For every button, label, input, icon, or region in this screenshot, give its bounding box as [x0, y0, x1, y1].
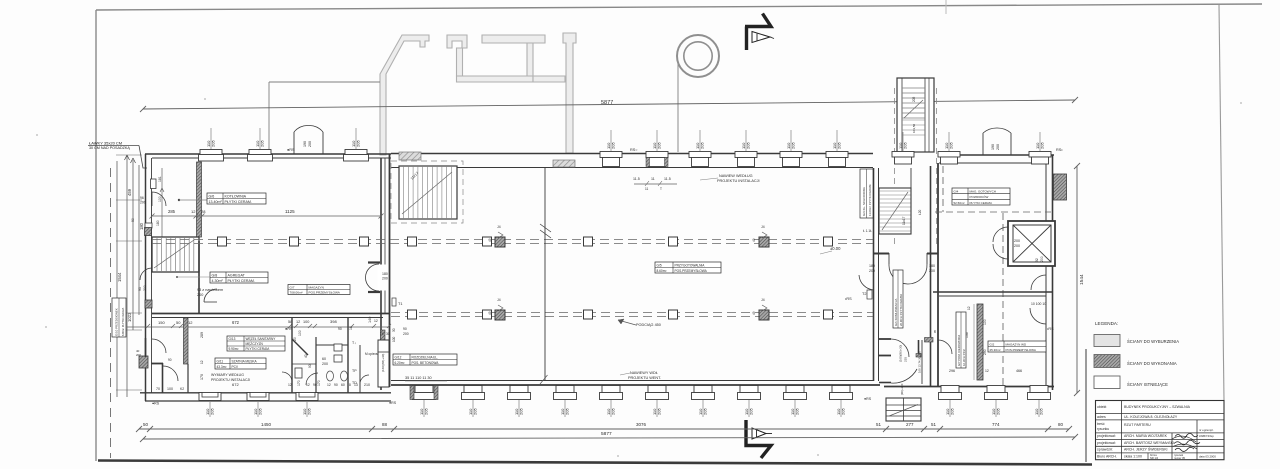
svg-text:11: 11 — [651, 177, 655, 181]
svg-text:180: 180 — [929, 264, 935, 268]
svg-text:205: 205 — [657, 142, 662, 149]
svg-text:74: 74 — [380, 332, 384, 336]
svg-text:LWB/74/Gp: LWB/74/Gp — [1199, 434, 1214, 438]
svg-text:96: 96 — [140, 196, 144, 200]
svg-text:(160)(86)+30): (160)(86)+30) — [381, 354, 385, 372]
svg-text:35 11 110 11 30: 35 11 110 11 30 — [405, 376, 432, 380]
svg-text:100: 100 — [167, 387, 173, 391]
svg-text:140: 140 — [368, 317, 372, 323]
svg-text:8: 8 — [349, 383, 351, 387]
svg-text:PŁYTKI CERAM.: PŁYTKI CERAM. — [246, 347, 270, 351]
svg-text:J4: J4 — [497, 225, 501, 229]
svg-text:●RS: ●RS — [287, 148, 295, 152]
svg-text:●RS: ●RS — [152, 402, 160, 406]
svg-text:88: 88 — [382, 422, 388, 427]
svg-text:205: 205 — [903, 142, 908, 149]
svg-text:•RS: •RS — [1047, 327, 1054, 331]
svg-text:26.90m² PŁYTKI CERAM.: 26.90m² PŁYTKI CERAM. — [899, 293, 903, 326]
svg-text:G/8: G/8 — [212, 273, 218, 277]
svg-text:49: 49 — [488, 238, 492, 242]
svg-text:90: 90 — [308, 364, 312, 368]
svg-text:200: 200 — [143, 285, 147, 291]
svg-text:398: 398 — [330, 319, 337, 324]
svg-text:projektował:: projektował: — [1097, 434, 1116, 438]
svg-text:9.90m²: 9.90m² — [229, 347, 239, 351]
svg-text:PROJEKTU INSTALACJI: PROJEKTU INSTALACJI — [717, 179, 760, 183]
svg-text:J4: J4 — [761, 298, 765, 302]
svg-text:1544: 1544 — [117, 272, 122, 282]
svg-text:150: 150 — [158, 320, 165, 325]
svg-text:KOTŁOWNIA: KOTŁOWNIA — [225, 194, 247, 198]
svg-text:T2: T2 — [862, 292, 866, 296]
svg-text:90: 90 — [334, 383, 338, 387]
svg-text:ŁAWKY 35x20 CM: ŁAWKY 35x20 CM — [89, 141, 122, 146]
svg-text:ŚCIANY DO WYBURZENIA: ŚCIANY DO WYBURZENIA — [1127, 339, 1179, 344]
svg-text:459: 459 — [127, 188, 132, 196]
svg-text:K2: K2 — [180, 387, 184, 391]
svg-text:200: 200 — [403, 332, 409, 336]
svg-text:80: 80 — [1058, 422, 1064, 427]
svg-text:205: 205 — [356, 140, 361, 147]
svg-text:28: 28 — [201, 209, 206, 214]
svg-text:170: 170 — [297, 380, 301, 386]
svg-text:MAGAZYN WD: MAGAZYN WD — [1006, 342, 1027, 346]
svg-text:11: 11 — [645, 187, 649, 191]
svg-text:30: 30 — [386, 332, 390, 336]
svg-text:180: 180 — [156, 220, 160, 226]
svg-text:5877: 5877 — [601, 431, 612, 437]
svg-text:PROJEKTU WENT.: PROJEKTU WENT. — [628, 376, 661, 380]
svg-text:MAGAZYN: MAGAZYN — [309, 285, 324, 289]
svg-text:RS•: RS• — [1056, 148, 1063, 152]
svg-text:103,50: 103,50 — [912, 123, 916, 133]
svg-text:G/7: G/7 — [290, 285, 295, 289]
svg-text:205: 205 — [1040, 142, 1045, 149]
svg-text:49: 49 — [752, 238, 756, 242]
svg-text:100: 100 — [303, 320, 309, 324]
svg-text:205: 205 — [746, 142, 751, 149]
svg-text:POS.PRZEMYSŁOWA: POS.PRZEMYSŁOWA — [1006, 348, 1036, 352]
svg-text:numer 05: numer 05 — [1174, 456, 1186, 460]
svg-text:rysunku: rysunku — [1097, 427, 1109, 431]
svg-text:205: 205 — [210, 408, 215, 415]
svg-text:170: 170 — [317, 380, 321, 386]
svg-text:12: 12 — [349, 326, 353, 330]
svg-text:92: 92 — [1035, 258, 1039, 262]
svg-text:sprawdził:: sprawdził: — [1097, 448, 1113, 452]
svg-text:T: T — [660, 187, 662, 191]
svg-text:12: 12 — [967, 306, 971, 310]
svg-text:205: 205 — [307, 408, 312, 415]
svg-text:G/5: G/5 — [657, 263, 662, 267]
svg-text:672: 672 — [232, 320, 240, 325]
svg-text:205: 205 — [791, 142, 796, 149]
svg-text:3076: 3076 — [636, 422, 647, 427]
svg-text:WĘZEŁ SANITARNY: WĘZEŁ SANITARNY — [246, 337, 277, 341]
svg-text:12: 12 — [191, 209, 196, 214]
svg-text:4.30m²: 4.30m² — [212, 279, 224, 283]
svg-text:181: 181 — [158, 176, 162, 182]
svg-text:12: 12 — [985, 369, 989, 373]
svg-text:708.06m²: 708.06m² — [290, 290, 303, 294]
svg-text:NAWIEW WEDŁUG: NAWIEW WEDŁUG — [719, 174, 753, 178]
svg-text:AGREGAT: AGREGAT — [228, 273, 246, 277]
svg-text:ŚCIANY ISTNIEJĄCE: ŚCIANY ISTNIEJĄCE — [1127, 382, 1168, 387]
svg-text:200: 200 — [308, 141, 312, 147]
svg-text:205: 205 — [700, 142, 705, 149]
svg-text:12: 12 — [288, 383, 292, 387]
svg-text:projektował:: projektował: — [1097, 441, 1116, 445]
svg-text:50: 50 — [143, 422, 149, 427]
svg-text:200: 200 — [197, 293, 203, 297]
svg-text:11.5: 11.5 — [664, 177, 671, 181]
svg-text:PŁYTKI CERAM.: PŁYTKI CERAM. — [228, 279, 255, 283]
svg-text:20: 20 — [293, 337, 297, 341]
svg-text:205: 205 — [837, 142, 842, 149]
svg-text:289: 289 — [200, 332, 204, 338]
svg-text:POWROKÓW: POWROKÓW — [970, 194, 989, 199]
svg-text:nr egzempl.: nr egzempl. — [1199, 428, 1214, 432]
svg-text:POS. BETONOWA: POS. BETONOWA — [412, 361, 440, 365]
svg-text:J4: J4 — [497, 298, 501, 302]
svg-text:1450: 1450 — [261, 422, 272, 427]
svg-text:205: 205 — [424, 408, 429, 415]
svg-text:TP: TP — [352, 369, 357, 373]
svg-text:16.30m² PCV: 16.30m² PCV — [962, 349, 966, 366]
svg-text:11.5: 11.5 — [633, 177, 640, 181]
svg-text:ŚCIANY DO WYKONANIA: ŚCIANY DO WYKONANIA — [1127, 361, 1177, 366]
svg-text:205: 205 — [611, 408, 616, 415]
svg-text:200: 200 — [1014, 239, 1020, 243]
svg-text:160 13 74 30 100: 160 13 74 30 100 — [918, 351, 922, 373]
svg-text:205: 205 — [949, 142, 954, 149]
svg-text:205: 205 — [1039, 408, 1044, 415]
svg-text:RZUT PARTERU: RZUT PARTERU — [1124, 423, 1151, 427]
svg-text:G/2: G/2 — [990, 342, 995, 346]
svg-text:296: 296 — [949, 369, 955, 373]
svg-text:60: 60 — [341, 383, 345, 387]
svg-text:90: 90 — [168, 358, 172, 362]
svg-text:205: 205 — [749, 408, 754, 415]
svg-text:•RS: •RS — [845, 297, 852, 301]
svg-text:ARCH. MARIA WOJTAREK: ARCH. MARIA WOJTAREK — [1124, 434, 1168, 438]
svg-text:43.3m²: 43.3m² — [217, 365, 227, 369]
svg-text:180: 180 — [869, 264, 875, 268]
svg-text:PODCIĄG 450: PODCIĄG 450 — [636, 323, 661, 327]
svg-text:PŁYTKI CERAM.: PŁYTKI CERAM. — [970, 201, 993, 205]
svg-text:11.09m² PŁYTKI CERAM.: 11.09m² PŁYTKI CERAM. — [868, 184, 872, 216]
svg-text:treść: treść — [1097, 422, 1105, 426]
svg-text:205: 205 — [996, 408, 1001, 415]
svg-text:51: 51 — [876, 422, 882, 427]
svg-text:12: 12 — [188, 320, 193, 325]
svg-text:G/11: G/11 — [217, 359, 224, 363]
svg-text:ARCH. JERZY ŚWIDERSKI: ARCH. JERZY ŚWIDERSKI — [1124, 447, 1168, 452]
svg-text:100: 100 — [298, 330, 302, 336]
svg-text:205: 205 — [795, 408, 800, 415]
svg-text:13.40m²: 13.40m² — [209, 200, 223, 204]
svg-text:POS.PRZEMYSŁOWA: POS.PRZEMYSŁOWA — [675, 269, 708, 273]
svg-text:ARCH. BARTOSZ WEYMAńSKI: ARCH. BARTOSZ WEYMAńSKI — [1124, 441, 1174, 445]
svg-text:90: 90 — [131, 218, 135, 222]
svg-text:PROJEKTU INSTALACJI: PROJEKTU INSTALACJI — [211, 378, 250, 382]
svg-text:MAG. GOTOWYCH: MAG. GOTOWYCH — [970, 189, 996, 193]
svg-text:180: 180 — [139, 222, 144, 230]
svg-text:49: 49 — [752, 311, 756, 315]
svg-text:30 CM NAD POSADZKĄ: 30 CM NAD POSADZKĄ — [89, 146, 130, 150]
svg-text:J4: J4 — [761, 225, 765, 229]
svg-text:93: 93 — [138, 287, 142, 291]
svg-text:12: 12 — [296, 320, 300, 324]
svg-text:205: 205 — [211, 140, 216, 147]
svg-text:8.60m²: 8.60m² — [657, 269, 667, 273]
svg-text:52.50m²: 52.50m² — [954, 201, 965, 205]
svg-text:205: 205 — [703, 408, 708, 415]
svg-text:skala 1:100: skala 1:100 — [1124, 455, 1142, 459]
svg-text:Biuro ARCH.: Biuro ARCH. — [1097, 455, 1117, 459]
svg-text:SZATNIA MĘSKA: SZATNIA MĘSKA — [232, 359, 258, 363]
svg-text:200: 200 — [136, 353, 141, 357]
svg-text:POS.PRZEMYSŁOWA: POS.PRZEMYSŁOWA — [309, 290, 341, 294]
svg-text:G/6: G/6 — [209, 194, 215, 198]
svg-text:Ł20: Ł20 — [918, 209, 922, 215]
svg-text:95: 95 — [933, 329, 937, 333]
svg-text:G/12: G/12 — [395, 355, 402, 359]
svg-text:672: 672 — [232, 382, 239, 387]
svg-text:12: 12 — [327, 383, 331, 387]
svg-text:T1: T1 — [398, 302, 402, 306]
svg-text:466: 466 — [1016, 369, 1022, 373]
svg-text:WYMIARY WEDŁUG: WYMIARY WEDŁUG — [211, 373, 244, 377]
svg-text:6.20m²: 6.20m² — [395, 361, 405, 365]
svg-text:90: 90 — [403, 327, 407, 331]
svg-text:1544: 1544 — [1079, 274, 1085, 285]
svg-text:774: 774 — [992, 422, 1000, 427]
svg-text:200: 200 — [996, 144, 1000, 150]
svg-text:RS○: RS○ — [630, 148, 638, 152]
svg-text:205: 205 — [519, 408, 524, 415]
svg-text:200: 200 — [1014, 244, 1020, 248]
svg-text:PRZYGOTOWALNIA: PRZYGOTOWALNIA — [675, 263, 706, 267]
svg-text:40: 40 — [304, 354, 308, 358]
svg-text:1125: 1125 — [285, 209, 295, 214]
svg-text:(160)(86)+30): (160)(86)+30) — [899, 345, 903, 362]
svg-text:ROZDZIELNIA EL.: ROZDZIELNIA EL. — [412, 355, 439, 359]
svg-text:205: 205 — [657, 408, 662, 415]
svg-text:205: 205 — [950, 408, 955, 415]
svg-text:205: 205 — [258, 408, 263, 415]
svg-text:T↓: T↓ — [352, 341, 356, 345]
svg-text:285: 285 — [168, 209, 176, 214]
svg-text:MĘŻCZYZN: MĘŻCZYZN — [246, 341, 264, 346]
svg-text:●RS: ●RS — [389, 401, 397, 405]
svg-text:200: 200 — [929, 269, 935, 273]
svg-text:12: 12 — [306, 383, 310, 387]
svg-text:Ł 1.1Ł: Ł 1.1Ł — [863, 229, 872, 233]
svg-text:200: 200 — [140, 201, 146, 205]
svg-text:190: 190 — [303, 141, 307, 147]
svg-text:50: 50 — [176, 320, 181, 325]
svg-text:49: 49 — [488, 311, 492, 315]
svg-text:(90)+200: (90)+200 — [900, 383, 904, 395]
svg-text:205: 205 — [611, 142, 616, 149]
svg-text:100: 100 — [392, 336, 396, 342]
svg-text:6.80m² PŁYTKI CERAM.: 6.80m² PŁYTKI CERAM. — [121, 307, 125, 336]
svg-text:G/1 KOMUNIKACJA: G/1 KOMUNIKACJA — [894, 299, 898, 326]
svg-text:90: 90 — [338, 327, 342, 331]
svg-text:190: 190 — [991, 144, 995, 150]
svg-text:PCV: PCV — [232, 365, 239, 369]
svg-text:100: 100 — [158, 196, 162, 202]
svg-text:UL. KOLEJOWA 8. OLEJNOŁAZY: UL. KOLEJOWA 8. OLEJNOŁAZY — [1124, 415, 1178, 419]
svg-text:G/7 POM. KIEROWNIKA: G/7 POM. KIEROWNIKA — [957, 335, 961, 366]
svg-text:205: 205 — [260, 140, 265, 147]
svg-text:BUDYNEK PRODUKCYJNY – SZWALNIA: BUDYNEK PRODUKCYJNY – SZWALNIA — [1124, 405, 1191, 409]
svg-text:10 100 10: 10 100 10 — [1031, 302, 1046, 306]
svg-text:G/4: G/4 — [954, 189, 959, 193]
svg-text:1023: 1023 — [127, 312, 132, 322]
svg-text:277: 277 — [906, 422, 914, 427]
svg-text:PŁYTKI CERAM.: PŁYTKI CERAM. — [225, 200, 252, 204]
svg-text:obiekt: obiekt — [1097, 405, 1106, 409]
svg-text:5877: 5877 — [601, 100, 613, 106]
svg-text:12: 12 — [374, 319, 378, 323]
svg-text:235: 235 — [904, 357, 908, 362]
svg-text:NAWIEWY WDŁ: NAWIEWY WDŁ — [630, 371, 658, 375]
svg-text:205: 205 — [473, 408, 478, 415]
svg-text:G/10 PRZEDSIONEK: G/10 PRZEDSIONEK — [115, 308, 119, 336]
svg-text:51: 51 — [931, 422, 937, 427]
svg-text:NR 1/4: NR 1/4 — [1150, 456, 1159, 460]
svg-text:adres: adres — [1097, 415, 1106, 419]
svg-text:205: 205 — [912, 96, 916, 102]
svg-text:data 03.2000: data 03.2000 — [1199, 455, 1216, 459]
svg-text:200: 200 — [322, 362, 328, 366]
svg-text:60: 60 — [322, 357, 326, 361]
svg-text:100: 100 — [983, 319, 987, 325]
svg-text:30: 30 — [392, 328, 396, 332]
svg-text:290: 290 — [983, 349, 987, 355]
svg-text:11x17: 11x17 — [902, 216, 906, 225]
svg-text:205: 205 — [841, 408, 846, 415]
svg-text:25.30m²: 25.30m² — [990, 348, 1001, 352]
svg-text:210: 210 — [364, 383, 370, 387]
svg-text:●RS: ●RS — [864, 397, 872, 401]
svg-text:LEGENDA:: LEGENDA: — [1095, 321, 1118, 326]
svg-text:200: 200 — [869, 269, 875, 273]
svg-text:G/13: G/13 — [229, 337, 236, 341]
svg-text:205: 205 — [565, 408, 570, 415]
svg-text:170: 170 — [200, 374, 204, 380]
svg-text:±0.00: ±0.00 — [830, 246, 841, 251]
svg-text:G/3 KL. SCHODOWA: G/3 KL. SCHODOWA — [862, 187, 866, 216]
svg-text:70: 70 — [156, 387, 160, 391]
svg-text:200: 200 — [382, 277, 388, 281]
svg-text:180: 180 — [382, 272, 388, 276]
svg-text:12: 12 — [200, 360, 204, 364]
svg-text:200: 200 — [1040, 256, 1044, 262]
svg-text:13: 13 — [354, 383, 358, 387]
